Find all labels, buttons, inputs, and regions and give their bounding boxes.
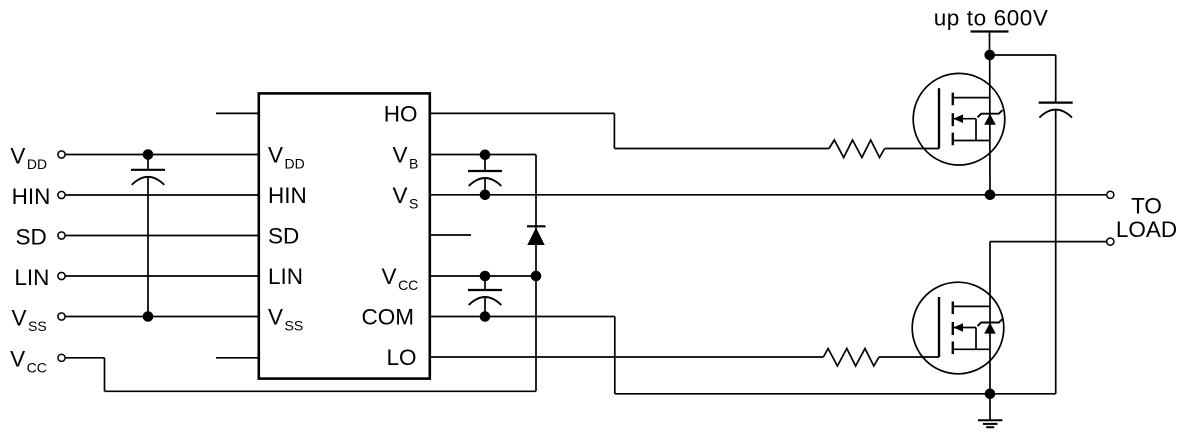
wire: stub bottom-left pin [216,357,258,359]
Q2 body arrowhead [953,323,963,332]
junction dot VS/Q1 source [985,190,996,201]
Q2 body arrow wire [953,327,976,329]
capacitor C3 bottom lead [484,297,486,317]
wire: 600V branch to bus cap [990,54,1056,56]
svg-text:LO: LO [386,345,416,370]
Q1 source stub [953,140,990,142]
Q1 zener triangle [984,114,996,125]
svg-text:LOAD: LOAD [1116,217,1177,242]
junction dot COM/C3 [480,311,491,322]
terminal VDD [58,151,65,158]
wire: lower load terminal run [990,241,1106,243]
capacitor C1 flat plate [131,169,165,171]
junction dot VB/C2 [480,150,491,161]
IC U1 body [259,93,430,378]
Q1 circle [913,73,1005,165]
capacitor C3 flat plate [468,289,502,291]
wire: VS line to load terminal [430,194,1106,196]
svg-text:SD: SD [268,224,299,249]
capacitor C4 (bus) top lead [1055,55,1057,103]
wire: 600V bar to junction [989,32,991,56]
wire: VB pin run [430,154,536,156]
capacitor C1 (VDD-VSS) top lead [147,155,149,170]
capacitor C3 (VCC-COM) top lead [484,276,486,290]
svg-text:HO: HO [384,102,418,127]
svg-text:VDD: VDD [10,143,47,172]
terminal TO LOAD upper [1107,191,1114,198]
wire: SD terminal to pin SD [65,235,258,237]
svg-text:VSS: VSS [12,305,47,334]
wire: VCC terminal run right [65,357,104,359]
svg-text:VDD: VDD [268,143,305,172]
junction dot VDD/C1 [143,149,154,160]
terminal VCC [58,354,65,361]
wire: stub top-left pin [216,112,258,114]
capacitor C4 bottom lead [1055,110,1057,394]
capacitor C1 bottom lead [147,177,149,317]
ground [978,394,1002,427]
wire: VCC drop down [104,358,106,392]
svg-text:up to 600V: up to 600V [934,5,1049,30]
wire: resistor R1 to gate Q1 [885,148,939,150]
svg-text:LIN: LIN [268,264,303,289]
resistor R2 (low-side gate) [823,349,879,367]
Q2 drain stub [953,305,990,307]
diode D1 cathode bar [527,225,546,227]
Q1 body vertical [975,119,977,141]
wire: resistor R2 to gate Q2 [879,356,939,358]
Q1 body arrow wire [953,118,976,120]
transistor Q2 (low-side MOSFET) [912,282,1004,374]
capacitor C2 bottom lead [484,178,486,195]
Q2 circle [912,282,1004,374]
diode D1 column wire [535,155,537,392]
wire: VCC pin run [430,275,536,277]
Q1 drain stub [953,97,990,99]
terminal SD [58,232,65,239]
Q2 channel bar dashes [952,302,954,315]
svg-text:COM: COM [362,305,415,330]
wire: SD right stub [430,234,471,236]
terminal HIN [58,191,65,198]
junction dot VCC/C3 [480,271,491,282]
wire: HIN terminal to pin HIN [65,194,258,196]
wire: VSS terminal to pin VSS [65,316,258,318]
wire: LIN terminal to pin LIN [65,275,258,277]
svg-text:VCC: VCC [382,264,419,293]
transistor Q1 (high-side MOSFET) [913,73,1005,165]
svg-text:VB: VB [392,143,418,172]
capacitor C4 curved plate [1039,110,1072,118]
capacitor C4 flat plate [1039,101,1073,103]
svg-text:VS: VS [392,183,418,212]
capacitor C2 curved plate [469,178,502,186]
capacitor C2 flat plate [468,170,502,172]
terminal VSS [58,313,65,320]
capacitor C3 curved plate [469,297,502,305]
Q2 zener bar [978,319,1003,326]
node: up to 600V terminal bar [971,30,1009,32]
Q1 gate bar [938,88,940,148]
wire: LO pin to gate resistor [430,356,823,358]
capacitor C2 (VB-VS bootstrap) top lead [484,155,486,172]
svg-text:HIN: HIN [268,183,307,208]
wire: HO pin to step [430,112,614,114]
svg-text:SD: SD [16,224,47,249]
wire: COM pin run [430,316,615,318]
svg-text:VCC: VCC [10,347,47,376]
junction dot 600V rail [984,50,995,61]
svg-text:HIN: HIN [12,184,51,209]
wire: Q1 drain/source vertical (600V to VS) [989,55,991,195]
junction dot VCC/D1 column [531,271,542,282]
svg-text:TO: TO [1131,193,1162,218]
resistor R1 (high-side gate) [829,140,885,158]
wire: HO step down [613,113,615,148]
terminal LIN [58,272,65,279]
junction dot VS/C2 [480,190,491,201]
junction dot Q2 source / ground [985,389,996,400]
svg-text:LIN: LIN [14,265,49,290]
Q1 channel bar dashes [952,93,954,106]
Q2 gate bar [938,297,940,357]
wire: VCC bottom run to diode column [105,390,537,392]
wire: COM step down [614,317,616,394]
terminal TO LOAD lower [1107,238,1114,245]
svg-text:VSS: VSS [268,305,303,334]
Q1 zener bar [978,110,1003,117]
wire: VDD terminal to pin VDD [65,154,258,156]
wire: Q2 drain vertical (load to ground dot) [989,242,991,394]
Q2 source stub [953,348,990,350]
wire: COM bottom run to cap branch [615,393,1056,395]
diode D1 triangle [527,228,544,246]
capacitor C1 curved plate [132,177,165,185]
Q2 body vertical [975,328,977,350]
Q2 zener triangle [984,323,996,334]
junction dot VSS/C1 [143,311,154,322]
wire: HO to gate resistor [614,148,829,150]
Q1 body arrowhead [953,114,963,123]
